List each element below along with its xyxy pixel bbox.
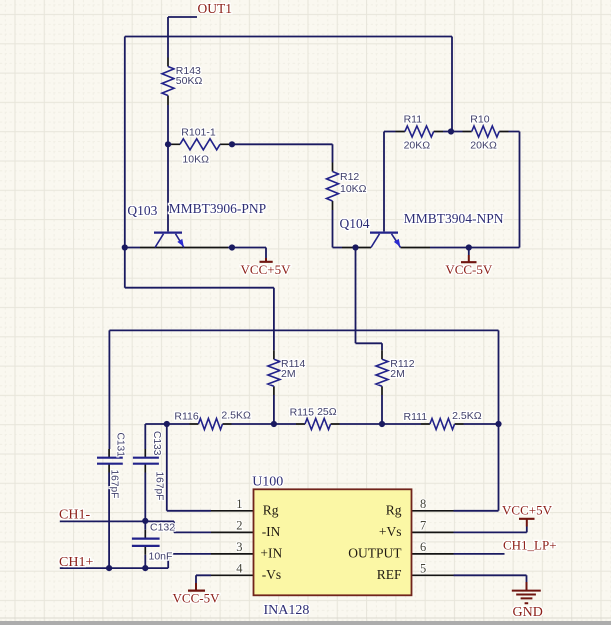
svg-text:VCC-5V: VCC-5V: [173, 590, 221, 605]
svg-text:C131: C131: [114, 433, 125, 458]
svg-text:VCC-5V: VCC-5V: [445, 262, 493, 277]
svg-text:CH1+: CH1+: [59, 555, 93, 570]
svg-text:REF: REF: [377, 567, 402, 582]
svg-text:VCC+5V: VCC+5V: [241, 262, 292, 277]
svg-text:1: 1: [236, 497, 242, 511]
svg-text:R116: R116: [174, 410, 198, 422]
svg-text:50KΩ: 50KΩ: [176, 75, 203, 87]
svg-text:Rg: Rg: [386, 503, 402, 518]
svg-text:10KΩ: 10KΩ: [182, 153, 209, 165]
svg-text:VCC+5V: VCC+5V: [502, 502, 553, 517]
svg-text:167pF: 167pF: [108, 470, 119, 499]
svg-text:C132: C132: [150, 521, 175, 533]
svg-text:20KΩ: 20KΩ: [470, 140, 497, 152]
svg-text:R115: R115: [290, 407, 314, 419]
svg-text:+Vs: +Vs: [379, 524, 402, 539]
svg-text:C133: C133: [151, 431, 162, 456]
svg-text:2M: 2M: [281, 368, 296, 380]
svg-text:10nF: 10nF: [149, 550, 173, 562]
svg-text:3: 3: [236, 540, 242, 554]
svg-text:R11: R11: [404, 114, 423, 126]
svg-text:6: 6: [420, 540, 426, 554]
svg-text:Q104: Q104: [340, 216, 370, 231]
svg-text:7: 7: [420, 518, 426, 532]
svg-text:CH1_LP+: CH1_LP+: [503, 538, 557, 553]
svg-text:OUTPUT: OUTPUT: [348, 546, 402, 561]
svg-text:MMBT3904-NPN: MMBT3904-NPN: [404, 211, 504, 226]
svg-text:-Vs: -Vs: [262, 567, 282, 582]
svg-text:+IN: +IN: [260, 546, 282, 561]
svg-text:2: 2: [236, 518, 242, 532]
svg-text:R12: R12: [340, 171, 359, 183]
svg-text:OUT1: OUT1: [198, 1, 233, 16]
svg-text:167pF: 167pF: [154, 472, 165, 501]
svg-text:R10: R10: [470, 114, 489, 126]
svg-text:5: 5: [420, 561, 426, 575]
svg-text:20KΩ: 20KΩ: [404, 140, 431, 152]
svg-text:-IN: -IN: [262, 524, 281, 539]
svg-text:4: 4: [236, 561, 243, 575]
svg-text:MMBT3906-PNP: MMBT3906-PNP: [169, 201, 267, 216]
svg-text:2.5KΩ: 2.5KΩ: [221, 409, 251, 421]
svg-text:2.5KΩ: 2.5KΩ: [452, 410, 482, 422]
svg-text:INA128: INA128: [264, 603, 310, 618]
svg-text:8: 8: [420, 497, 426, 511]
svg-text:Q103: Q103: [127, 203, 157, 218]
svg-text:Rg: Rg: [263, 503, 279, 518]
svg-text:CH1-: CH1-: [59, 507, 90, 522]
svg-text:R101-1: R101-1: [181, 126, 216, 138]
svg-text:10KΩ: 10KΩ: [340, 183, 367, 195]
svg-text:U100: U100: [252, 474, 283, 489]
svg-text:2M: 2M: [390, 368, 405, 380]
svg-text:25Ω: 25Ω: [317, 406, 337, 418]
svg-text:R111: R111: [404, 411, 428, 423]
